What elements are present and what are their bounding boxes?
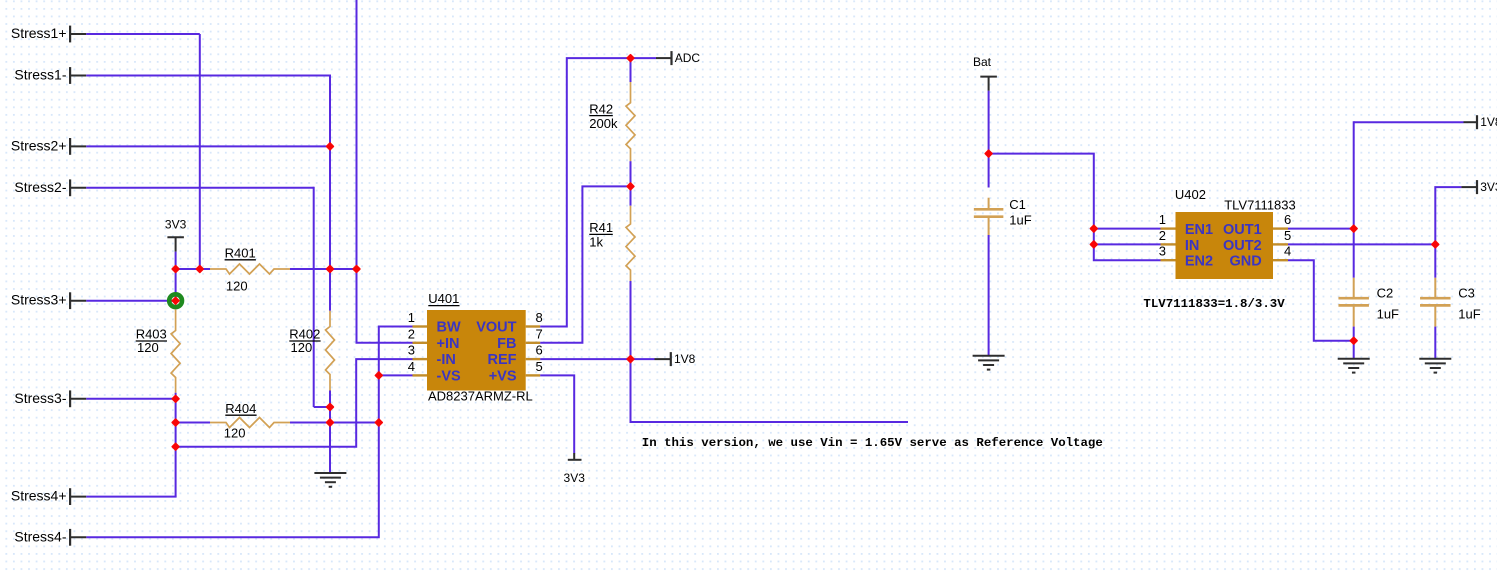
- svg-text:IN: IN: [1185, 238, 1200, 254]
- port Stress2-: [14, 179, 86, 196]
- wire EN1 branch: [1093, 228, 1161, 230]
- pin 8 VOUT of U401: [476, 310, 543, 336]
- svg-text:In this version, we use Vin =: In this version, we use Vin = 1.65V serv…: [642, 436, 1103, 450]
- wire R404 row left: [176, 422, 210, 424]
- svg-text:6: 6: [1284, 212, 1291, 227]
- svg-text:7: 7: [536, 326, 543, 341]
- label R404: [225, 401, 256, 416]
- port Stress3+: [11, 292, 86, 309]
- wire BW/-VS/Stress4- net: [86, 327, 412, 538]
- svg-text:Stress3+: Stress3+: [11, 292, 67, 308]
- port Stress1-: [14, 67, 86, 84]
- svg-text:-IN: -IN: [437, 352, 456, 368]
- pin 3 EN2 of U402: [1159, 244, 1213, 270]
- svg-text:1V8: 1V8: [674, 352, 696, 366]
- pin 6 REF of U401: [488, 343, 543, 369]
- svg-text:R42: R42: [589, 101, 613, 116]
- svg-text:3: 3: [1159, 244, 1166, 259]
- pin 6 OUT1 of U402: [1223, 212, 1291, 238]
- wire 1V8 net vertical: [1353, 121, 1355, 278]
- wire Stress3- horizontal: [86, 398, 175, 400]
- wire R401 row right: [290, 268, 358, 270]
- pin 4 GND of U402: [1229, 244, 1291, 270]
- svg-text:+IN: +IN: [437, 336, 460, 352]
- svg-text:Stress2+: Stress2+: [11, 137, 67, 153]
- junction Stress2-/R402 leg: [327, 404, 334, 411]
- junction REF/1V8: [627, 356, 634, 363]
- pin 7 FB of U401: [497, 326, 543, 352]
- junction GND/C2: [1350, 337, 1357, 344]
- pin 1 BW of U401: [408, 310, 461, 336]
- port Stress2+: [11, 137, 86, 154]
- ground C2 GND: [1338, 359, 1370, 373]
- svg-text:R404: R404: [225, 401, 256, 416]
- label R41: [589, 220, 613, 235]
- svg-text:-VS: -VS: [437, 368, 462, 384]
- svg-text:120: 120: [226, 279, 248, 294]
- svg-text:C2: C2: [1377, 285, 1394, 300]
- svg-text:EN2: EN2: [1185, 254, 1213, 270]
- pin 5 +VS of U401: [489, 359, 543, 385]
- wire C2 bottom: [1353, 327, 1355, 360]
- junction R404/-VS net: [375, 419, 382, 426]
- capacitor C1: [974, 198, 1004, 235]
- svg-text:C3: C3: [1458, 285, 1475, 300]
- svg-text:AD8237ARMZ-RL: AD8237ARMZ-RL: [428, 389, 533, 404]
- wire 3V3 down to Stress3+ node: [175, 269, 177, 302]
- junction Stress1+/R401 row: [196, 266, 203, 273]
- wire -VS pin4 branch: [378, 374, 413, 376]
- wire +VS to 3V3: [540, 375, 574, 453]
- wire Bat to U402 EN2: [989, 154, 1161, 261]
- wire R42 top lead: [630, 57, 632, 82]
- wire REF row to 1V8: [540, 358, 654, 360]
- junction OUT1/C2: [1350, 225, 1357, 232]
- wire R41 top lead: [630, 186, 632, 205]
- wire Stress1- horizontal: [86, 75, 330, 77]
- svg-text:6: 6: [536, 343, 543, 358]
- svg-text:2: 2: [408, 326, 415, 341]
- svg-text:OUT2: OUT2: [1223, 238, 1262, 254]
- svg-text:BW: BW: [437, 320, 461, 336]
- svg-text:U401: U401: [428, 291, 459, 306]
- svg-text:R41: R41: [589, 220, 613, 235]
- wire node-X vertical (Stress1-/Stress2+/R402 top): [329, 75, 331, 311]
- ground bridge GND: [314, 473, 346, 487]
- svg-text:200k: 200k: [589, 116, 618, 131]
- wire Stress2- horizontal: [86, 187, 313, 189]
- wire FB net: [540, 186, 631, 342]
- wire VOUT to ADC node: [540, 58, 656, 326]
- wire Stress1+ horizontal: [86, 33, 200, 35]
- junction -VS pin4: [375, 372, 382, 379]
- junction +IN/R401 row: [353, 266, 360, 273]
- port 3V3 right: [1461, 180, 1497, 194]
- port Stress3-: [14, 390, 86, 407]
- wire 3V3 stub to R401 row: [175, 252, 177, 270]
- resistor R401: [210, 264, 290, 274]
- svg-text:C1: C1: [1009, 197, 1026, 212]
- port Stress1+: [11, 25, 86, 42]
- svg-text:Stress4-: Stress4-: [14, 528, 66, 544]
- wire R41 bottom lead: [630, 281, 632, 360]
- junction EN1 tap: [1090, 225, 1097, 232]
- wire Stress4+ horizontal: [86, 496, 176, 498]
- svg-text:Stress1-: Stress1-: [14, 67, 66, 83]
- node Stress3+ green junction marker: [169, 294, 182, 307]
- ground C1 GND: [973, 356, 1005, 370]
- ground C3 GND: [1419, 359, 1451, 373]
- svg-text:U402: U402: [1175, 187, 1206, 202]
- resistor R404: [210, 418, 290, 428]
- junction -IN net/R403 leg: [172, 443, 179, 450]
- svg-text:3V3: 3V3: [165, 218, 187, 232]
- label U401: [428, 291, 459, 306]
- wire R42 bottom lead: [630, 161, 632, 187]
- wire REF down and right: [631, 359, 909, 422]
- junction 3V3/R401 row: [172, 266, 179, 273]
- svg-text:4: 4: [408, 359, 415, 374]
- wire -IN net (pin3 to R403 bottom): [175, 359, 413, 447]
- junction OUT2/C3: [1432, 241, 1439, 248]
- wire Bat vertical: [988, 91, 990, 188]
- svg-text:5: 5: [1284, 228, 1291, 243]
- svg-text:1: 1: [1159, 212, 1166, 227]
- svg-text:Stress4+: Stress4+: [11, 488, 67, 504]
- svg-text:120: 120: [137, 340, 159, 355]
- svg-text:REF: REF: [488, 352, 517, 368]
- resistor R402: [326, 311, 335, 391]
- resistor R41: [626, 206, 635, 281]
- port 1V8 right: [1464, 115, 1497, 129]
- pin 5 OUT2 of U402: [1223, 228, 1291, 254]
- wire C3 bottom: [1434, 327, 1436, 360]
- wire Stress2- vertical: [313, 187, 315, 407]
- resistor R403: [171, 309, 180, 392]
- svg-text:1uF: 1uF: [1377, 307, 1399, 322]
- wire Stress1+ vertical: [199, 34, 201, 270]
- wire IN branch: [1093, 243, 1161, 245]
- svg-text:5: 5: [536, 359, 543, 374]
- svg-text:VOUT: VOUT: [476, 320, 516, 336]
- svg-text:FB: FB: [497, 336, 516, 352]
- junction Bat/C1: [985, 150, 992, 157]
- regulator U402 body: [1176, 212, 1274, 279]
- label R402: [289, 327, 320, 342]
- svg-text:1uF: 1uF: [1009, 212, 1031, 227]
- capacitor C3: [1420, 278, 1451, 327]
- svg-text:3V3: 3V3: [1480, 180, 1497, 194]
- junction R404 left: [172, 419, 179, 426]
- svg-text:R401: R401: [225, 246, 256, 261]
- wire OUT2 row: [1288, 243, 1436, 245]
- pin 2 +IN of U401: [408, 326, 460, 352]
- wire R403 bottom vertical: [175, 393, 177, 497]
- port ADC: [656, 51, 700, 65]
- wire C1 bottom: [988, 235, 990, 357]
- svg-text:3V3: 3V3: [564, 471, 586, 485]
- resistor R42: [626, 82, 635, 161]
- svg-text:4: 4: [1284, 244, 1291, 259]
- svg-text:Stress3-: Stress3-: [14, 390, 66, 406]
- wire OUT1 row: [1288, 228, 1354, 230]
- svg-text:8: 8: [536, 310, 543, 325]
- svg-text:ADC: ADC: [675, 51, 701, 65]
- svg-text:3: 3: [408, 343, 415, 358]
- pin 3 -IN of U401: [408, 343, 456, 369]
- svg-text:1: 1: [408, 310, 415, 325]
- svg-text:Stress1+: Stress1+: [11, 25, 67, 41]
- svg-text:1uF: 1uF: [1458, 307, 1480, 322]
- wire Stress3+ horizontal: [86, 300, 175, 302]
- pin 2 IN of U402: [1159, 228, 1200, 254]
- wire +IN net (top edge to pin2): [357, 0, 413, 343]
- svg-text:GND: GND: [1229, 254, 1261, 270]
- node Stress3+ center: [172, 297, 179, 304]
- port Stress4-: [14, 528, 86, 545]
- svg-text:120: 120: [291, 340, 313, 355]
- wire 1V8 row: [1354, 121, 1464, 123]
- junction R401/R402 node: [327, 266, 334, 273]
- svg-text:1V8: 1V8: [1480, 115, 1497, 129]
- svg-text:+VS: +VS: [489, 368, 517, 384]
- svg-text:120: 120: [224, 425, 246, 440]
- wire Stress2+ horizontal: [86, 145, 330, 147]
- wire 3V3 net: [1435, 187, 1461, 278]
- svg-text:EN1: EN1: [1185, 222, 1213, 238]
- svg-text:Bat: Bat: [973, 55, 992, 69]
- op-amp U401 body: [427, 310, 526, 391]
- port 1V8 mid: [655, 352, 696, 366]
- label R403: [136, 327, 167, 342]
- svg-text:TLV7111833: TLV7111833: [1224, 197, 1296, 212]
- junction IN tap: [1090, 241, 1097, 248]
- svg-text:1k: 1k: [589, 235, 603, 250]
- pin 4 -VS of U401: [408, 359, 461, 385]
- svg-text:TLV7111833=1.8/3.3V: TLV7111833=1.8/3.3V: [1143, 297, 1285, 311]
- svg-text:2: 2: [1159, 228, 1166, 243]
- wire R401 row left: [175, 268, 210, 270]
- junction R42/R41/FB: [627, 183, 634, 190]
- capacitor C2: [1338, 278, 1369, 327]
- power 3V3 bottom symbol: [564, 453, 586, 485]
- power Bat symbol: [973, 55, 997, 91]
- label R42: [589, 101, 613, 116]
- junction Stress3-/R403: [172, 395, 179, 402]
- wire R402 bottom to ground: [329, 391, 331, 474]
- pin 1 EN1 of U402: [1159, 212, 1213, 238]
- wire GND pin to C2: [1288, 260, 1355, 341]
- svg-text:Stress2-: Stress2-: [14, 179, 66, 195]
- svg-text:OUT1: OUT1: [1223, 222, 1262, 238]
- power 3V3 top symbol: [165, 218, 187, 252]
- label R401: [225, 246, 256, 261]
- junction ADC/R42: [627, 55, 634, 62]
- junction R404/R402 leg: [327, 419, 334, 426]
- wire Stress2- jog to R402 leg: [314, 406, 331, 408]
- port Stress4+: [11, 488, 86, 505]
- junction Stress2+/Stress1-: [327, 143, 334, 150]
- wire R404 row right: [290, 422, 379, 424]
